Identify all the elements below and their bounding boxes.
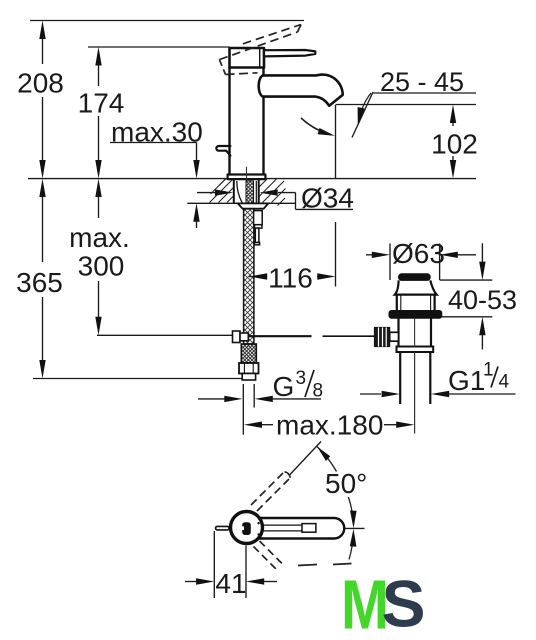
svg-text:3: 3 [296, 368, 307, 389]
svg-text:40-53: 40-53 [448, 285, 517, 315]
svg-text:25 - 45: 25 - 45 [380, 67, 464, 97]
svg-text:G1: G1 [448, 365, 485, 396]
svg-text:102: 102 [431, 129, 478, 160]
svg-text:1: 1 [483, 360, 494, 381]
svg-text:174: 174 [78, 88, 125, 119]
svg-text:S: S [382, 567, 426, 640]
svg-text:Ø34: Ø34 [301, 183, 354, 214]
svg-text:8: 8 [313, 381, 324, 402]
svg-text:max.: max. [69, 222, 130, 253]
svg-text:G: G [273, 371, 295, 402]
svg-text:300: 300 [78, 251, 125, 282]
svg-text:365: 365 [16, 267, 63, 298]
svg-text:4: 4 [499, 372, 510, 393]
svg-text:max.180: max.180 [276, 410, 383, 441]
svg-text:41: 41 [215, 568, 246, 599]
svg-text:208: 208 [17, 68, 64, 99]
svg-text:Ø63: Ø63 [392, 238, 445, 269]
svg-text:50°: 50° [325, 468, 367, 499]
svg-text:max.30: max.30 [111, 117, 203, 148]
svg-text:116: 116 [268, 263, 313, 294]
